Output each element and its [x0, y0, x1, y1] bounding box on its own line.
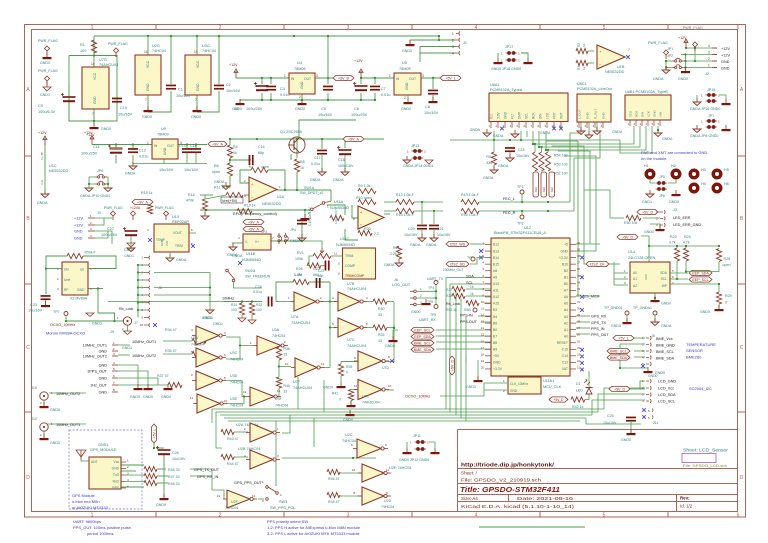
- junction: [321, 138, 323, 140]
- svg-text:1.0M: 1.0M: [294, 273, 302, 277]
- w gps txd: [126, 474, 144, 476]
- wire jp9 left: [89, 177, 96, 184]
- svg-text:DMP: DMP: [518, 112, 522, 119]
- wire R44 to U2B: [234, 456, 248, 458]
- svg-text:GND0: GND0: [156, 503, 166, 507]
- wire J2 p3: [681, 54, 712, 56]
- svg-text:GNDA: GNDA: [653, 77, 664, 81]
- wire BME_SCL to U12: [436, 341, 491, 343]
- svg-text:4: 4: [41, 179, 43, 183]
- svg-text:C11: C11: [93, 145, 100, 149]
- svg-text:1: 1: [708, 64, 710, 68]
- svg-text:PWR_FLAG: PWR_FLAG: [648, 41, 668, 45]
- svg-text:R9 1.0k-: R9 1.0k-: [358, 184, 372, 188]
- wire Q1 emitter: [290, 154, 292, 160]
- svg-text:A7: A7: [564, 289, 568, 293]
- ground GND1 r31: [238, 315, 246, 322]
- resistor R43 sym: [221, 429, 234, 434]
- no-connect: [552, 127, 556, 131]
- svg-text:C25: C25: [607, 414, 614, 418]
- svg-text:SCL: SCL: [661, 277, 668, 281]
- gnd bar c8: [429, 97, 438, 103]
- wire R24 top: [685, 246, 687, 248]
- svg-text:11: 11: [190, 396, 193, 400]
- junction: [65, 320, 67, 322]
- op-amp U1A body: [249, 177, 277, 202]
- junction: [493, 139, 495, 141]
- svg-text:74HC04: 74HC04: [230, 358, 243, 362]
- wire GPS TX out: [190, 468, 212, 470]
- resistor R10 sym: [358, 199, 376, 204]
- svg-text:29: 29: [577, 313, 581, 317]
- wire ant: [81, 459, 89, 461]
- wire J5 row right 2: [154, 287, 210, 289]
- wire EFC row: [200, 209, 310, 211]
- svg-text:+5V_D: +5V_D: [554, 398, 565, 402]
- svg-text:H3: H3: [701, 168, 706, 172]
- wire bus U12 left v3: [455, 291, 457, 415]
- wire U9 gnd: [163, 159, 165, 164]
- svg-text:GNDA: GNDA: [661, 324, 672, 328]
- svg-text:A5: A5: [564, 302, 568, 306]
- ground GND1 c27: [127, 236, 135, 247]
- wire X1 pin5 loop right: [83, 256, 116, 269]
- wire U14 VCC drop: [648, 246, 650, 264]
- svg-text:A1: A1: [633, 277, 637, 281]
- wire R39 top stub: [340, 362, 342, 365]
- svg-text:R11 1k: R11 1k: [214, 186, 225, 190]
- svg-text:GNDA: GNDA: [498, 164, 509, 168]
- svg-text:C2: C2: [226, 83, 231, 87]
- wire BME gnd drop: [619, 344, 621, 368]
- wire tp4 stem: [435, 285, 437, 299]
- svg-text:EEP_SDA: EEP_SDA: [414, 335, 431, 339]
- svg-text:B12: B12: [493, 243, 499, 247]
- svg-text:R36: R36: [284, 347, 290, 351]
- resistor R50 sym: [626, 215, 641, 220]
- wire 1hz out: [118, 384, 168, 386]
- global label +5V_D: [637, 209, 658, 214]
- junction: [278, 344, 280, 346]
- svg-text:GND0: GND0: [295, 107, 305, 111]
- flag j2: [664, 50, 669, 59]
- svg-text:B8: B8: [493, 341, 497, 345]
- junction: [270, 77, 272, 79]
- svg-text:GNDA: GNDA: [662, 137, 673, 141]
- jumper JP17 pads: [506, 51, 518, 55]
- resistor R33 sym: [373, 325, 387, 330]
- resistor R1 sym: [91, 40, 96, 53]
- svg-text:GND: GND: [721, 67, 730, 71]
- junction: [421, 201, 423, 203]
- svg-text:X1 MV89A: X1 MV89A: [70, 297, 88, 301]
- w r14 t: [205, 195, 226, 199]
- resistor R30 sym: [373, 299, 387, 304]
- wire R23 bottom: [676, 261, 678, 279]
- flag j2 b: [693, 42, 698, 51]
- junction: [665, 60, 667, 62]
- resistor R25 sym: [716, 249, 721, 262]
- wire U14 SCL: [670, 278, 688, 280]
- capacitor C16 sym: [249, 155, 254, 165]
- oscillator X1 body: [62, 262, 88, 295]
- svg-text:GNDA: GNDA: [125, 172, 136, 176]
- w gps rxd: [126, 481, 144, 483]
- no-connect: [580, 256, 584, 260]
- svg-text:GND1: GND1: [203, 316, 213, 320]
- svg-text:100k: 100k: [295, 257, 303, 261]
- svg-text:GNDA: GNDA: [540, 131, 551, 135]
- wire to gnd bar: [620, 367, 648, 369]
- svg-text:D: D: [26, 475, 30, 481]
- wire U14 left drop: [613, 262, 615, 285]
- resistor R3 sym: [576, 60, 588, 65]
- svg-text:+3.3V: +3.3V: [559, 256, 569, 260]
- svg-text:PWR_FLAG: PWR_FLAG: [108, 42, 128, 46]
- svg-text:A10: A10: [493, 282, 499, 286]
- wire C24 to U7A: [276, 301, 290, 303]
- svg-text:R41: R41: [332, 392, 338, 396]
- svg-text:+12V: +12V: [84, 131, 93, 135]
- svg-text:GND1: GND1: [213, 322, 223, 326]
- inverter U2A tri: [246, 423, 280, 442]
- svg-text:BCK: BCK: [635, 111, 639, 117]
- capacitor C3 sym: [254, 82, 268, 91]
- resistor R23 sym: [674, 248, 679, 261]
- hole H2: [672, 170, 680, 178]
- wire out2: [118, 354, 130, 356]
- svg-text:H4: H4: [701, 182, 706, 186]
- wire C2 gnd drop: [197, 91, 219, 112]
- jumper JP10 sym: [96, 181, 107, 185]
- gnd bar u4: [298, 99, 307, 105]
- wire RV1 right to TRIM pin: [331, 255, 342, 257]
- svg-text:A0: A0: [633, 271, 637, 275]
- svg-text:C8: C8: [425, 105, 430, 109]
- wire sd to u12: [470, 258, 485, 265]
- svg-text:SW1A: SW1A: [304, 186, 315, 190]
- wire R31 top: [241, 302, 243, 304]
- global label +5V_A: [243, 226, 264, 231]
- wire J2 p1a: [666, 67, 673, 69]
- wire LCD vcc: [630, 388, 645, 390]
- svg-text:Rb_Lock: Rb_Lock: [119, 307, 133, 311]
- wire bus sck: [620, 126, 652, 153]
- svg-text:C7: C7: [381, 87, 386, 91]
- wire X1 RF out: [88, 288, 103, 290]
- svg-text:100u/16V: 100u/16V: [338, 164, 354, 168]
- svg-text:Vcc: Vcc: [490, 113, 494, 119]
- svg-text:R53 100: R53 100: [554, 163, 568, 167]
- resistor R34 sym: [192, 338, 206, 343]
- svg-text:R37 47: R37 47: [157, 374, 169, 378]
- svg-text:34: 34: [577, 280, 581, 284]
- svg-text:BME_SDA: BME_SDA: [610, 356, 628, 360]
- svg-text:10u/16V: 10u/16V: [118, 113, 133, 117]
- resistor R44 sym: [221, 454, 234, 459]
- svg-text:Rev:: Rev:: [680, 496, 690, 501]
- capacitor C26 sym: [156, 446, 170, 455]
- no-connect: [580, 368, 584, 372]
- power arrow u9: [90, 136, 94, 145]
- wire BME sda: [634, 356, 645, 358]
- jumper JP13 pads: [412, 149, 424, 153]
- wire U11A out stub: [384, 213, 390, 215]
- svg-text:R48 33: R48 33: [168, 482, 180, 486]
- svg-text:R40: R40: [284, 384, 290, 388]
- svg-text:470k: 470k: [186, 199, 194, 203]
- gnda c21: [430, 234, 438, 242]
- wire GNDA rail under U6A1: [450, 139, 620, 141]
- no-connect: [580, 295, 584, 299]
- svg-text:U7A: U7A: [291, 315, 299, 319]
- wire J2 p2a: [666, 60, 673, 62]
- svg-text:R39: R39: [346, 365, 352, 369]
- wire EEP_SDA to U12: [436, 335, 491, 337]
- global label EEP_SDA: [689, 270, 712, 275]
- svg-text:R35 47: R35 47: [165, 349, 177, 353]
- svg-text:13: 13: [481, 320, 485, 324]
- wire J1 drop: [419, 47, 421, 63]
- junction: [694, 60, 696, 62]
- hole H4: [690, 184, 698, 192]
- svg-text:74HC04: 74HC04: [230, 404, 243, 408]
- junction: [241, 300, 243, 302]
- capacitor C13u9 sym: [182, 148, 192, 153]
- wire ws to u12: [470, 243, 485, 245]
- svg-text:GND: GND: [74, 237, 83, 241]
- wire farm to bus v2: [323, 380, 325, 412]
- svg-text:C12: C12: [139, 149, 146, 153]
- svg-text:U11A: U11A: [334, 200, 344, 204]
- svg-text:74AHCU04: 74AHCU04: [99, 63, 118, 67]
- wire r12 r13: [414, 201, 443, 203]
- svg-text:GND: GND: [653, 110, 657, 118]
- svg-text:GND0: GND0: [678, 77, 688, 81]
- w h2 jp5: [668, 179, 676, 183]
- svg-text:SCK: SCK: [629, 111, 633, 117]
- junction: [113, 320, 115, 322]
- svg-text:J10: J10: [31, 386, 37, 390]
- svg-text:R8: R8: [300, 160, 305, 164]
- gnd0 j2: [681, 67, 690, 73]
- ground GND0 tl: [43, 53, 52, 59]
- svg-text:2: 2: [219, 513, 222, 519]
- svg-text:FEC_L: FEC_L: [503, 197, 515, 201]
- svg-text:+12V: +12V: [74, 217, 83, 221]
- svg-text:TP4: TP4: [428, 286, 434, 290]
- wire R42 to LED: [585, 394, 589, 400]
- global label +5V_L: [151, 424, 156, 443]
- svg-text:12: 12: [252, 494, 256, 498]
- svg-text:GND: GND: [77, 288, 85, 292]
- svg-text:SW_DPDT_x2: SW_DPDT_x2: [300, 191, 323, 195]
- svg-text:U12: U12: [524, 226, 531, 230]
- IC U6A1 body: [489, 93, 568, 122]
- svg-text:6: 6: [737, 513, 740, 519]
- wire j12 gnd: [43, 431, 45, 437]
- inverter U7D tri: [354, 351, 389, 371]
- svg-text:0.01u: 0.01u: [280, 93, 290, 97]
- svg-text:1k: 1k: [470, 285, 474, 289]
- svg-text:TP2: TP2: [517, 222, 524, 226]
- wire j4 a: [95, 217, 112, 219]
- svg-text:VOUT: VOUT: [173, 231, 182, 235]
- gnd jp17 r: [524, 58, 533, 64]
- sw0 circle: [473, 308, 477, 312]
- wire u13 vout: [189, 232, 196, 234]
- svg-text:R24: R24: [684, 235, 691, 239]
- svg-text:U11C: U11C: [340, 237, 350, 241]
- svg-text:R27: R27: [446, 288, 452, 292]
- gnda jp8: [693, 125, 701, 133]
- svg-text:J11: J11: [653, 421, 659, 425]
- wire R36 to R40: [278, 360, 280, 377]
- wire I2S corridor 2: [552, 146, 588, 264]
- jumper JP9 sym: [96, 174, 107, 178]
- wire rail to J1 pin2: [439, 36, 456, 40]
- svg-text:A2: A2: [564, 321, 568, 325]
- wire GPS RX in: [190, 475, 212, 477]
- svg-text:14: 14: [91, 62, 95, 66]
- svg-text:GND: GND: [160, 239, 164, 247]
- jumper JP11 pads: [415, 440, 427, 444]
- svg-text:C22: C22: [313, 267, 320, 271]
- resistor R47 sym: [144, 473, 157, 478]
- junction: [327, 35, 329, 37]
- resistor R39 sym: [338, 364, 343, 376]
- global label I2S2_SD: [446, 261, 469, 266]
- wire J2 v3: [694, 48, 696, 61]
- svg-text:GNDA: GNDA: [493, 134, 504, 138]
- inverter U7E tri: [354, 380, 389, 400]
- resistor R46 sym: [327, 469, 340, 474]
- svg-text:DIN: DIN: [539, 113, 543, 119]
- svg-text:SW2A: SW2A: [245, 269, 256, 273]
- wire U12 +5 down: [477, 360, 479, 380]
- wire U3D out: [226, 381, 246, 397]
- junction: [293, 35, 295, 37]
- gnd jp8: [722, 125, 731, 131]
- svg-text:GND0: GND0: [143, 395, 153, 399]
- svg-text:10u/16V: 10u/16V: [437, 233, 451, 237]
- wire R30 rail to U7D: [341, 302, 394, 362]
- gnd jp16: [722, 99, 731, 105]
- svg-text:A1: A1: [564, 328, 568, 332]
- svg-text:GNDA JP10 GND1: GNDA JP10 GND1: [80, 194, 110, 198]
- resistor R27 sym: [452, 286, 465, 291]
- IC U9 body: [152, 139, 178, 159]
- svg-text:GNDA JP14 GND1: GNDA JP14 GND1: [403, 164, 433, 168]
- svg-text:H5: H5: [724, 168, 729, 172]
- svg-text:12: 12: [481, 313, 485, 317]
- junction: [648, 245, 650, 247]
- inverter U7C tri: [334, 318, 367, 337]
- svg-text:A0: A0: [564, 334, 568, 338]
- junction: [521, 210, 523, 212]
- wire to U7D in: [341, 361, 358, 363]
- svg-text:GND0: GND0: [466, 385, 476, 389]
- wire RF down: [97, 289, 99, 314]
- svg-text:40: 40: [577, 241, 581, 245]
- svg-text:1k: 1k: [470, 292, 474, 296]
- svg-text:U3E: U3E: [230, 397, 238, 401]
- svg-text:GND: GND: [93, 96, 97, 104]
- svg-text:7: 7: [145, 98, 147, 102]
- wire j4 gnd: [95, 231, 112, 244]
- svg-text:33: 33: [284, 353, 288, 357]
- svg-text:B13: B13: [493, 249, 499, 253]
- junction: [520, 139, 522, 141]
- wire U3G VCC: [196, 36, 198, 55]
- IC U2G body: [135, 55, 161, 95]
- IC U12 body: [491, 238, 570, 376]
- global label BME_SCL: [411, 340, 434, 345]
- wire RF to row: [98, 313, 115, 321]
- svg-text:U2C: U2C: [345, 433, 353, 437]
- w c21 g: [433, 230, 435, 238]
- svg-text:GND0: GND0: [343, 418, 353, 422]
- svg-text:UART_RX: UART_RX: [419, 318, 436, 322]
- svg-text:+9V_A: +9V_A: [248, 221, 259, 225]
- svg-text:100u/25V: 100u/25V: [81, 152, 98, 156]
- svg-text:C23: C23: [30, 303, 37, 307]
- gnda c17: [318, 168, 326, 176]
- wire bus bottom h5: [228, 420, 580, 422]
- global label +9V_A: [243, 219, 264, 224]
- svg-text:GND: GND: [721, 60, 730, 64]
- gnda c20: [418, 234, 426, 242]
- svg-text:GPS_RX: GPS_RX: [591, 315, 607, 319]
- svg-text:0.01u: 0.01u: [139, 155, 149, 159]
- wire R50 up: [584, 190, 610, 218]
- svg-text:BME_GND: BME_GND: [656, 344, 675, 348]
- svg-text:SDA: SDA: [660, 271, 668, 275]
- junction: [239, 344, 241, 346]
- gnda r5: [490, 166, 498, 174]
- wire U12 +5 right: [576, 243, 600, 245]
- svg-text:20: 20: [481, 365, 485, 369]
- gnd u14: [651, 296, 660, 302]
- wire J3 p3 gnd: [650, 224, 660, 228]
- wire U11B in: [232, 242, 243, 244]
- wire X1 pin1: [46, 268, 62, 270]
- capacitor C4 sym: [266, 86, 276, 91]
- gnda jp16: [693, 98, 701, 106]
- svg-text:R3: R3: [577, 66, 581, 70]
- svg-text:ANT: ANT: [91, 460, 98, 464]
- IC U11B body: [243, 234, 271, 250]
- svg-text:100: 100: [80, 49, 86, 53]
- svg-text:C15: C15: [518, 148, 525, 152]
- wire bus bck: [533, 126, 634, 144]
- svg-text:GND0: GND0: [621, 438, 631, 442]
- svg-text:JP4: JP4: [290, 228, 296, 232]
- junction: [296, 189, 298, 191]
- gnd j8 b: [144, 384, 153, 390]
- svg-text:U7E: U7E: [362, 395, 369, 399]
- svg-text:1k: 1k: [233, 151, 237, 155]
- IC U5 body: [394, 73, 421, 95]
- resistor R13 sym: [461, 199, 479, 204]
- svg-text:VCC: VCC: [93, 72, 97, 80]
- svg-text:JP7: JP7: [708, 114, 714, 118]
- wire j4 b: [95, 218, 104, 225]
- wire C1 gnd drop: [148, 91, 171, 112]
- gnda u11b: [229, 243, 237, 251]
- gnd r39: [337, 382, 346, 388]
- svg-text:0.01u: 0.01u: [253, 290, 262, 294]
